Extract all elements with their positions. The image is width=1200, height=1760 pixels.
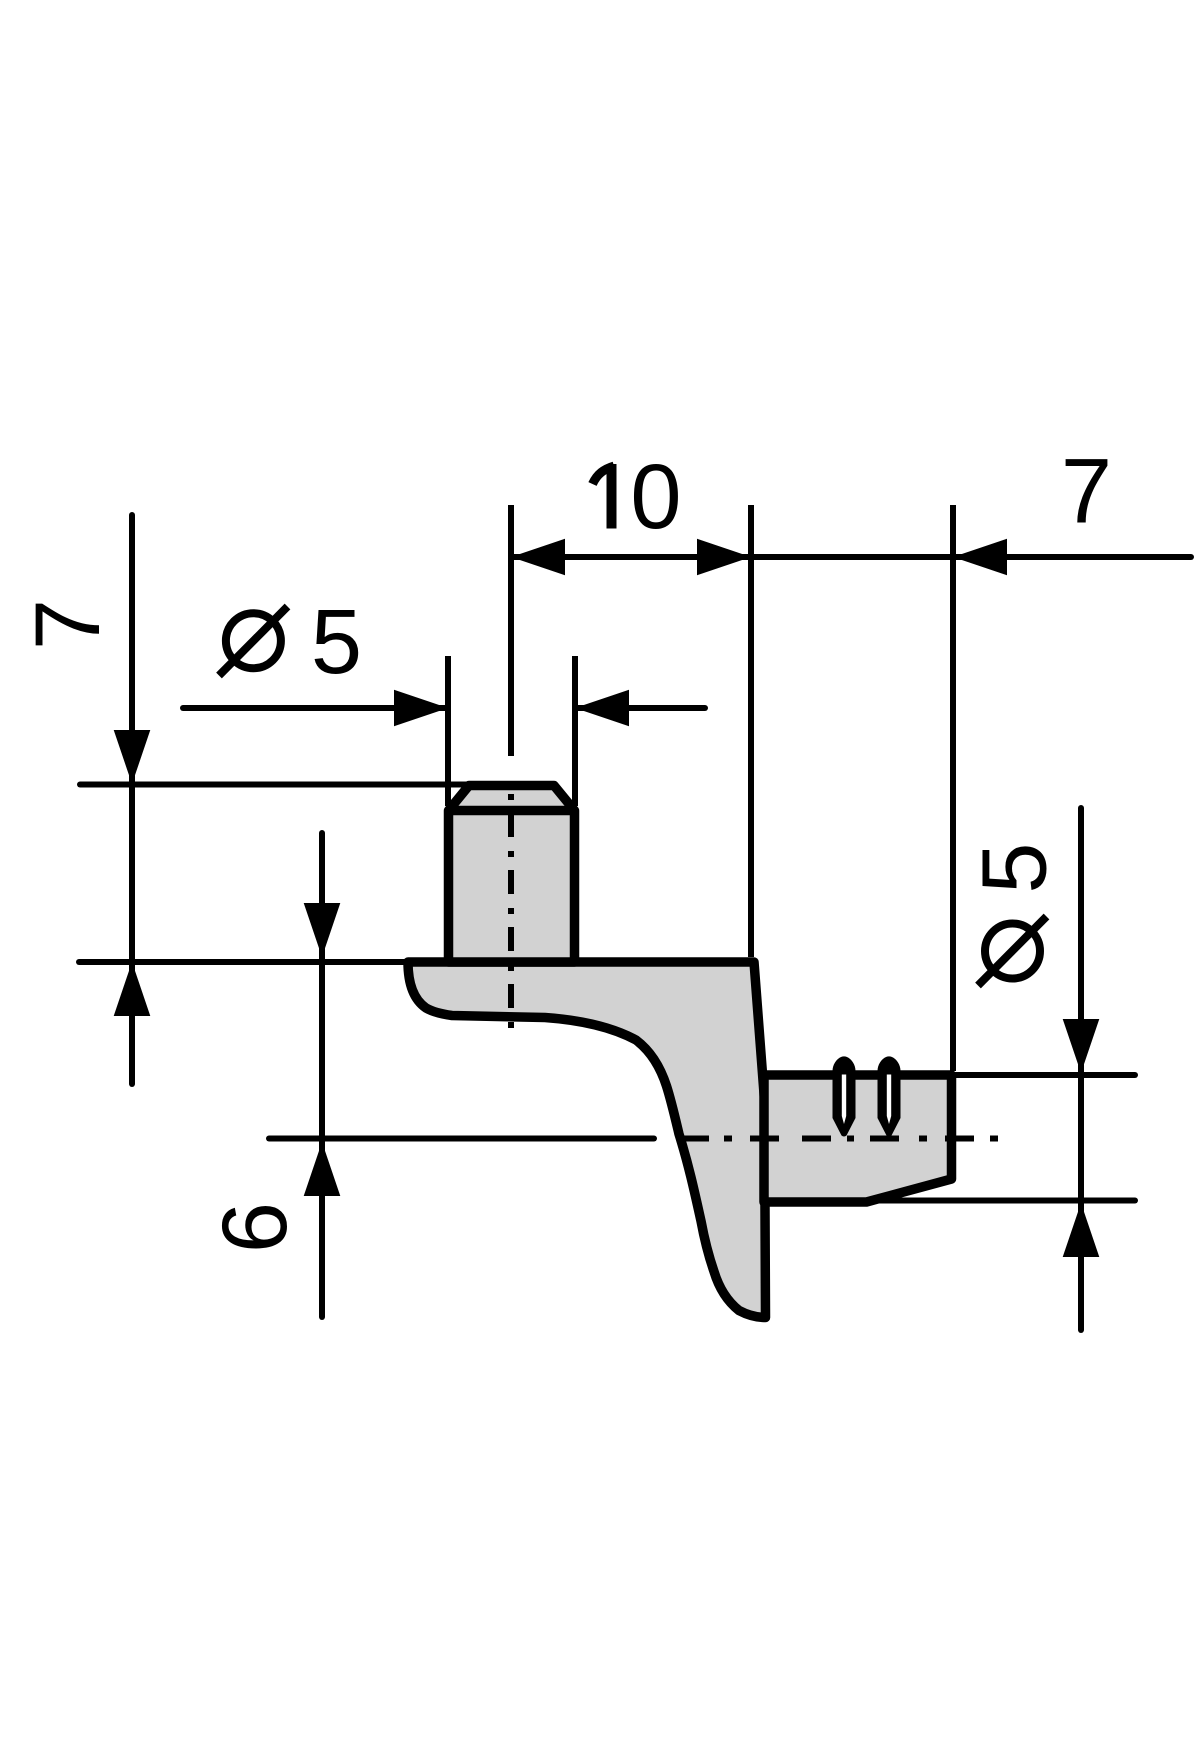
pin extension lines — [445, 656, 451, 806]
extension line: pin axis upper solid — [508, 505, 514, 756]
slot 2 on peg — [878, 1056, 901, 1136]
svg-text:5: 5 — [311, 591, 362, 693]
label Ø5 (left) — [226, 613, 281, 668]
extension line: body face — [748, 505, 754, 957]
svg-text:7: 7 — [17, 599, 119, 650]
peg (horizontal dowel) — [764, 1075, 952, 1202]
svg-text:5: 5 — [964, 842, 1066, 893]
arrow right at face line — [697, 539, 751, 576]
top dimension line (10 / 7) — [511, 554, 1191, 560]
peg diameter dimension (Ø5, right) — [955, 1072, 1135, 1078]
svg-text:0: 0 — [630, 446, 681, 548]
peg axis: dash-dot portion — [654, 1136, 998, 1142]
reference line: flange top — [79, 959, 408, 965]
left dimension line 7 — [129, 515, 135, 1084]
shelf-support body (flange + leg) — [408, 962, 766, 1318]
peg axis: solid reference portion — [269, 1136, 654, 1142]
dimension line 6 — [319, 833, 325, 1317]
svg-text:6: 6 — [204, 1202, 306, 1253]
slot 1 on peg — [833, 1056, 856, 1136]
arrow left at pin axis — [511, 539, 565, 576]
reference line: pin top — [80, 782, 470, 788]
label Ø5 (right, rotated) — [985, 924, 1040, 979]
pin chamfer base line — [446, 806, 577, 816]
extension line: peg end — [950, 505, 956, 1071]
pin (vertical stud) — [449, 786, 575, 963]
svg-text:7: 7 — [1061, 441, 1112, 543]
pin centerline dash-dot — [508, 794, 514, 1032]
pin diameter dimension (Ø5) — [183, 705, 448, 711]
arrow left at peg end line — [953, 539, 1007, 576]
label 10 : custom footless 1 + text 0 — [607, 464, 617, 529]
